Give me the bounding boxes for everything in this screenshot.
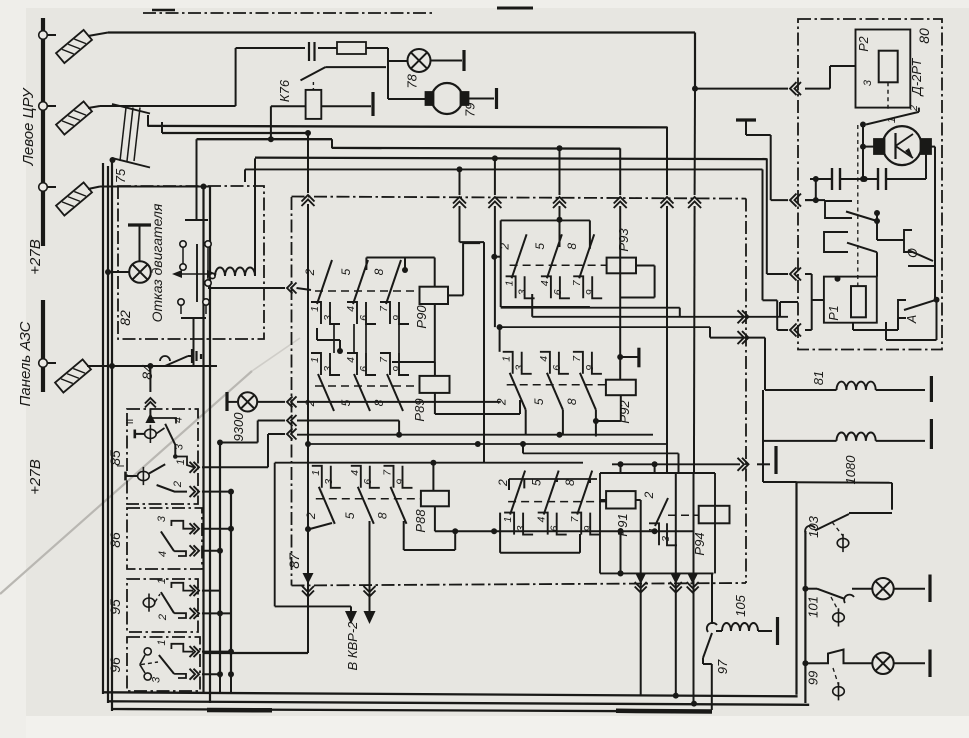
svg-text:9300: 9300 bbox=[231, 412, 246, 442]
svg-text:1: 1 bbox=[156, 578, 168, 584]
svg-text:99: 99 bbox=[806, 671, 821, 685]
svg-text:1: 1 bbox=[501, 356, 513, 362]
svg-text:8: 8 bbox=[565, 243, 579, 250]
svg-text:82: 82 bbox=[117, 310, 133, 326]
svg-text:96: 96 bbox=[107, 657, 123, 673]
svg-text:3: 3 bbox=[514, 365, 526, 371]
svg-text:Р92: Р92 bbox=[617, 400, 632, 424]
svg-text:9: 9 bbox=[584, 289, 596, 295]
svg-text:75: 75 bbox=[113, 168, 128, 183]
svg-text:8: 8 bbox=[563, 479, 577, 486]
svg-text:5: 5 bbox=[533, 243, 547, 250]
svg-text:97: 97 bbox=[715, 659, 730, 674]
svg-text:8: 8 bbox=[565, 398, 579, 405]
svg-text:4: 4 bbox=[173, 417, 185, 423]
svg-text:2: 2 bbox=[642, 491, 656, 499]
svg-text:4: 4 bbox=[345, 306, 357, 312]
svg-text:4: 4 bbox=[538, 356, 550, 362]
svg-text:К76: К76 bbox=[277, 79, 292, 102]
svg-text:2: 2 bbox=[157, 614, 169, 621]
svg-text:6: 6 bbox=[551, 365, 563, 371]
svg-text:Р89: Р89 bbox=[412, 398, 427, 421]
svg-text:80: 80 bbox=[916, 28, 932, 44]
svg-text:2: 2 bbox=[303, 399, 317, 407]
svg-text:1: 1 bbox=[309, 306, 321, 312]
svg-text:86: 86 bbox=[107, 532, 123, 548]
svg-text:4: 4 bbox=[349, 470, 361, 476]
svg-text:85: 85 bbox=[107, 450, 123, 466]
svg-text:4: 4 bbox=[536, 517, 548, 523]
svg-text:6: 6 bbox=[358, 366, 370, 372]
svg-text:6: 6 bbox=[362, 479, 374, 485]
svg-text:5: 5 bbox=[339, 399, 353, 406]
svg-text:Отказ двигателя: Отказ двигателя bbox=[149, 203, 165, 322]
svg-text:3: 3 bbox=[173, 443, 185, 450]
svg-text:3: 3 bbox=[660, 536, 672, 542]
svg-text:8: 8 bbox=[372, 268, 386, 275]
svg-text:2: 2 bbox=[172, 481, 184, 488]
svg-text:3: 3 bbox=[151, 676, 163, 683]
svg-text:1: 1 bbox=[886, 117, 898, 123]
svg-text:8: 8 bbox=[372, 399, 386, 406]
svg-text:5: 5 bbox=[530, 479, 544, 486]
svg-text:87: 87 bbox=[286, 552, 302, 569]
svg-text:Панель АЗС: Панель АЗС bbox=[17, 321, 34, 406]
svg-text:8: 8 bbox=[376, 512, 390, 519]
svg-text:+27В: +27В bbox=[27, 459, 44, 494]
svg-text:Левое ЦРУ: Левое ЦРУ bbox=[20, 87, 37, 166]
svg-text:4: 4 bbox=[157, 551, 169, 557]
svg-text:4: 4 bbox=[539, 280, 551, 286]
svg-text:+27В: +27В bbox=[27, 239, 44, 274]
svg-text:3: 3 bbox=[862, 79, 874, 86]
svg-text:1080: 1080 bbox=[843, 455, 858, 485]
svg-text:9: 9 bbox=[391, 366, 403, 372]
svg-text:Р90: Р90 bbox=[414, 305, 429, 329]
svg-text:Р2: Р2 bbox=[857, 36, 871, 51]
svg-text:3: 3 bbox=[322, 315, 334, 321]
svg-text:1: 1 bbox=[175, 459, 187, 465]
svg-text:103: 103 bbox=[806, 515, 821, 537]
svg-text:2: 2 bbox=[303, 268, 317, 276]
svg-text:9: 9 bbox=[584, 365, 596, 371]
svg-text:Р88: Р88 bbox=[413, 509, 428, 533]
svg-text:79: 79 bbox=[463, 102, 478, 116]
svg-text:3: 3 bbox=[322, 366, 334, 372]
svg-text:5: 5 bbox=[343, 512, 357, 519]
svg-text:1: 1 bbox=[309, 357, 321, 363]
svg-text:101: 101 bbox=[806, 596, 821, 618]
svg-text:Р93: Р93 bbox=[616, 228, 631, 252]
svg-text:1: 1 bbox=[310, 470, 322, 476]
svg-text:81: 81 bbox=[811, 371, 826, 385]
svg-text:1: 1 bbox=[504, 280, 516, 286]
svg-text:95: 95 bbox=[107, 599, 123, 615]
svg-text:I: I bbox=[116, 465, 127, 468]
svg-text:II: II bbox=[125, 419, 136, 425]
svg-text:5: 5 bbox=[339, 268, 353, 275]
svg-text:6: 6 bbox=[552, 289, 564, 295]
svg-text:105: 105 bbox=[733, 594, 748, 616]
svg-text:О: О bbox=[906, 248, 920, 258]
svg-text:А: А bbox=[905, 315, 919, 324]
svg-text:3: 3 bbox=[517, 289, 529, 295]
svg-text:5: 5 bbox=[532, 398, 546, 405]
svg-text:Р1: Р1 bbox=[827, 305, 841, 320]
svg-text:2: 2 bbox=[304, 512, 318, 520]
svg-text:78: 78 bbox=[405, 73, 420, 88]
svg-text:1: 1 bbox=[156, 640, 168, 646]
svg-text:1: 1 bbox=[502, 517, 514, 523]
svg-text:2: 2 bbox=[495, 398, 509, 406]
svg-text:4: 4 bbox=[345, 357, 357, 363]
svg-text:6: 6 bbox=[358, 315, 370, 321]
svg-text:В КВР-2: В КВР-2 bbox=[345, 621, 360, 671]
svg-text:3: 3 bbox=[156, 515, 168, 522]
svg-text:3: 3 bbox=[323, 479, 335, 485]
svg-text:9: 9 bbox=[391, 315, 403, 321]
svg-text:9: 9 bbox=[395, 479, 407, 485]
svg-text:Р94: Р94 bbox=[692, 532, 707, 555]
